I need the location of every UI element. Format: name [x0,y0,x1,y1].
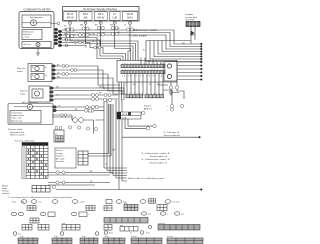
svg-text:tx w: tx w [146,232,150,235]
wire long mid [122,136,199,138]
svg-text:motor: motor [2,187,8,190]
wire blower [56,189,201,191]
pass-through bundle left of strip [119,82,124,100]
wire sub fan 4 [53,98,118,100]
wire relay comb 5 [177,75,201,77]
svg-text:Fan relay combination: Fan relay combination [15,140,35,143]
ac compressor box [8,104,53,125]
wire comb 8 [146,41,201,62]
svg-text:(heater): (heater) [2,192,10,195]
svg-text:i10: i10 [88,29,90,31]
legend row1 item B7 [72,200,78,204]
wire pressure pair [52,115,72,117]
legend row5 circle [148,225,151,228]
wire compressor 1 [56,106,104,108]
svg-text:tx tx: tx tx [82,235,86,238]
legend row1 item 5 [106,200,112,204]
wire main fan 2 [55,70,122,88]
svg-text:models +: models + [56,156,65,158]
terminal dots right mid [200,61,202,81]
matrix left header column [22,146,26,179]
svg-text:(thermo sw): (thermo sw) [11,119,22,122]
sub fan box [29,86,50,102]
inline connector pair on meter wire 3 [79,34,87,37]
relay sub box [164,62,177,82]
main fan pins [52,65,56,80]
svg-text:Compressor: Compressor [11,111,23,114]
wire main fan 1 [55,66,120,85]
wire meter 3 [62,35,201,49]
speedometer gauge [22,22,51,24]
svg-text:FB-11: FB-11 [67,13,74,16]
wire main fan 3 [55,74,124,91]
wire relay comb 6 [177,79,201,81]
junction table text [122,114,128,120]
legend row2 grid 2 [86,206,95,211]
wire pair A [48,173,113,176]
wire sub fan 1 [53,88,124,95]
svg-text:F : Front wiring harness B :: F : Front wiring harness B : Bulkhead wi… [8,196,72,199]
inline connector big 1 [73,118,84,123]
svg-text:: Except models - B: : Except models - B [149,161,168,164]
inline connector pair mid [84,106,98,113]
wire pair B [48,183,110,186]
svg-text:magnet clutch: magnet clutch [11,114,25,117]
relay drop wires [127,74,163,96]
wire relay comb 1 [177,61,201,63]
svg-text:(Refer to wiper): (Refer to wiper) [10,134,25,137]
legend row1 item 6 grid [149,199,156,203]
legend row7 grid 1 [18,235,38,244]
svg-text:: Except models A: : Except models A [163,134,180,137]
svg-text:i10: i10 [55,134,57,136]
svg-text:*4 : California spec. models -: *4 : California spec. models - B [141,158,170,161]
connector ovals below relay [169,86,178,94]
svg-text:WL: WL [64,25,67,27]
thermo box [54,130,64,142]
for hot connector grid [78,151,88,165]
svg-text:ODO trip: ODO trip [23,43,32,46]
legend row5 grid b [38,225,49,231]
svg-text:GW: GW [64,33,67,35]
fuse stub 2 [86,21,136,60]
wire relay comb 3 [177,68,201,70]
legend row2 grid 4 [124,202,138,211]
pair B connectors [56,181,65,184]
legend row1 item 3 [52,200,58,204]
svg-text:Daytime: Daytime [185,13,194,16]
legend row4 grid left [30,218,39,223]
wire comb 5 [158,41,201,55]
wire hot 1 [88,104,109,154]
svg-text:tx tx: tx tx [105,235,109,238]
meter lamp box [22,42,51,48]
svg-text:=w: =w [39,202,42,204]
svg-text:B6: B6 [22,201,24,203]
relay row 1 cells [121,65,165,68]
svg-text:Lo: Lo [45,75,47,77]
for hot box [55,148,76,168]
legend row7 grid 4 [103,235,125,244]
svg-text:30A: 30A [83,17,88,20]
svg-text:Malfunction: Malfunction [23,30,34,33]
svg-text:=w: =w [181,214,184,216]
svg-text:COMBINATION METER: COMBINATION METER [24,9,51,12]
fog line connectors [170,104,183,111]
note *3 [163,131,180,137]
svg-text:Sub fan: Sub fan [20,91,28,93]
fuse stub 3 [101,21,133,60]
switch matrix [22,143,48,179]
svg-text:: Except models - A: : Except models - A [149,155,168,158]
junction dot [103,87,105,89]
wire meter 1 [62,30,201,44]
legend row3 [11,212,17,215]
note *1 *2 [128,29,158,38]
legend row1 item 2 [31,200,37,204]
fog line text [144,106,153,111]
connector F45 [186,22,200,27]
wire main fan 4 [55,78,126,94]
pressure inline connectors [61,114,67,117]
svg-text:operated at the: operated at the [10,131,25,134]
relay box top feed wires [141,58,161,65]
legend row1 item 6 [140,200,146,204]
pair A connectors [56,171,65,174]
wire relay comb 4 [177,72,201,74]
wire meter 6 [62,43,126,61]
svg-text:LW: LW [99,92,102,94]
speedometer box [22,15,51,28]
svg-text:L: L [141,84,142,86]
legend row4 wide band [104,218,148,224]
svg-text:=tx wm: =tx wm [173,201,180,204]
legend row1 item 7 [165,200,171,204]
relay row 2 cells [121,71,165,74]
wire comb 6 [154,41,201,57]
main fan box [28,64,52,82]
wire comb 4 [162,41,201,52]
meter outlet connectors [65,29,68,47]
fuse stub 4 [115,21,131,60]
sub fan label [20,91,28,96]
svg-text:i10: i10 [133,29,135,31]
legend row2 grid 3 [104,206,112,211]
wire meter 5 [62,40,123,60]
svg-text:F45: F45 [88,33,91,35]
svg-text:F45 B: F45 B [122,114,128,116]
svg-text:indicator: indicator [23,33,31,36]
sub fan motor [35,91,40,96]
connector F45 label [185,13,197,22]
splice circles [68,126,97,131]
relay coil 2 [167,74,171,78]
wire color code labels [56,28,186,183]
svg-text:LW: LW [57,72,60,74]
wire F45 feed [146,40,191,42]
svg-text:=text: =text [80,201,85,204]
svg-text:RW: RW [110,24,113,26]
legend row7 grid 3 [80,235,98,244]
wire meter 7 [62,46,86,48]
svg-text:BW: BW [57,76,60,78]
wire meter 2 [62,33,201,47]
svg-text:*3 : California spec. models -: *3 : California spec. models - A [141,152,170,155]
svg-text:relay + coil: relay + coil [11,117,22,120]
legend row2 grid 1 [27,206,36,211]
svg-text:Pressure switch: Pressure switch [8,128,24,131]
legend row5 wide right [158,222,200,230]
svg-text:RL: RL [143,49,145,51]
connector ovals hot [103,98,111,101]
relay holder box [117,60,177,82]
second strip cells group 1 [126,95,143,98]
svg-text:country: country [56,152,63,155]
wire compressor 2 [56,110,84,112]
svg-text:*3 : Calif. spec. A: *3 : Calif. spec. A [163,131,179,134]
blower grid [32,186,50,193]
svg-text:For hot: For hot [56,149,63,152]
svg-text:motor: motor [20,92,26,95]
terminal dots right upper [200,43,202,63]
svg-text:GL: GL [96,44,98,46]
legend rows [11,199,203,244]
matrix dots [28,149,47,178]
legend row5 grid d [104,225,112,231]
svg-text:FB-4: FB-4 [98,13,104,16]
wire meter 4 [62,38,121,61]
stub terminals [69,22,132,24]
branch terminals [125,113,153,128]
svg-text:F45: F45 [72,34,75,36]
diode D1 [190,31,195,35]
stub connector ids [64,24,135,46]
svg-text:Speedometer: Speedometer [30,16,43,19]
svg-text:(Refer to A/C air conditioning: (Refer to A/C air conditioning system) [128,177,165,180]
svg-text:tx tx tx: tx tx tx [131,235,137,238]
combination meter box [19,12,54,49]
wire hot 2 [88,104,111,156]
svg-text:GW: GW [112,149,115,151]
wire strip to fog [158,85,172,104]
svg-text:M4.5: M4.5 [127,17,133,20]
note *4b [141,152,170,164]
wire comb 7 [150,41,201,60]
lamp L1 [36,42,40,46]
svg-text:FB-2: FB-2 [83,13,89,16]
pressure switch text [8,128,25,136]
svg-text:F45: F45 [117,32,120,34]
legend row5 grid a [22,225,32,231]
svg-text:+ lamp: + lamp [23,37,30,39]
wire sub fan 3 [53,94,118,96]
svg-text:fan motor: fan motor [56,160,65,163]
fuse stub 5 [128,21,130,60]
wire relay comb 2 [177,65,201,67]
svg-text:40A W: 40A W [66,17,74,20]
svg-text:motor: motor [17,70,23,73]
svg-text:Fog line: Fog line [144,106,152,108]
svg-text:resistor: resistor [2,190,9,193]
power supply routing box [63,7,140,22]
legend row7 grid 6 [167,235,203,244]
svg-text:i10 A: i10 A [122,117,127,120]
svg-text:i10: i10 [117,28,119,30]
svg-text:relay F45: relay F45 [185,19,195,22]
svg-text:running light: running light [185,16,197,19]
wire sub fan 2 [53,91,122,95]
wire from F45 [191,27,195,45]
svg-text:tx tx tx: tx tx tx [167,235,173,238]
blower resistor text [2,184,10,195]
legend row6 [13,232,17,236]
main fan inline connectors [62,65,77,76]
meter ground [36,49,40,56]
compressor pins [53,106,57,112]
legend row5 grid e [120,224,138,231]
legend row7 grid 5 [131,235,162,244]
svg-text:A/C cond: A/C cond [56,157,64,160]
svg-text:M: M [29,106,31,109]
legend row5 grid c [62,222,80,230]
svg-text:1A 2B 3C 4D 5E 6F 7G: 1A 2B 3C 4D 5E 6F 7G [122,75,163,78]
inline connectors on stubs [66,26,133,37]
compressor circle [14,106,53,108]
bundle turns [104,168,127,181]
fog line plus marks [167,106,179,112]
main fan motor [35,66,39,70]
svg-text:B tx: B tx [124,202,127,205]
compressor text box [10,111,41,124]
main fan label [17,68,26,73]
wire to bundle [72,115,104,134]
inline connector pair on meter wire 6 [79,41,102,49]
relay coil 1 [167,64,171,68]
sub fan pins [50,87,54,102]
relay oval stubs [171,82,184,99]
meter speedo output [51,23,57,25]
second strip cells group 2 [145,95,164,98]
svg-text:1.2B: 1.2B [112,17,117,20]
blower oval [52,185,55,188]
svg-text:40A W: 40A W [97,17,105,20]
legend row7 grid 2 [52,235,72,244]
legend row2 grid 5 [157,205,167,211]
svg-text:To Power Supply Routing: To Power Supply Routing [83,7,117,11]
sub fan inline connectors [92,94,112,101]
svg-text:Blower: Blower [2,184,9,187]
svg-text:ABS line: ABS line [144,108,153,111]
vertical bundle [104,99,122,190]
fuse stub 1 [70,21,138,60]
svg-text:Main fan: Main fan [17,68,26,70]
svg-text:FB-31: FB-31 [127,13,134,16]
main fan inner text [32,67,47,77]
svg-text:i10: i10 [72,30,74,32]
svg-text:i10: i10 [103,32,105,34]
meter connector pins [54,28,62,46]
meter text box [22,30,42,40]
svg-text:=w: =w [148,214,151,216]
svg-text:F=w: F=w [12,202,17,204]
junction table M/B [117,112,141,119]
